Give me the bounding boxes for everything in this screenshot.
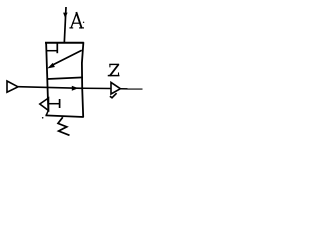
label A — [70, 13, 83, 28]
valve body top edge — [45, 42, 84, 44]
blocked port bar (top cell) — [56, 43, 58, 53]
pilot line A (vertical signal line into valve top) — [64, 7, 66, 43]
exhaust link line — [49, 103, 60, 105]
valve position divider — [48, 77, 83, 79]
exhaust port bar — [59, 99, 61, 108]
valve body right edge — [82, 42, 84, 117]
valve body left edge — [46, 42, 48, 111]
output line from valve to Z triangle — [83, 87, 111, 89]
speck below bottom-left corner — [42, 117, 44, 119]
bottom-left corner connector — [46, 110, 48, 115]
flow arrowhead (bottom cell, pointing right) — [72, 86, 79, 91]
diagonal arrowhead (pointing lower-left) — [47, 63, 55, 69]
label Z — [109, 64, 119, 75]
input flow line — [18, 87, 82, 89]
ink smudge below Z triangle — [110, 93, 117, 98]
valve body bottom edge — [45, 115, 83, 117]
speck right of A — [83, 22, 84, 23]
spring (return spring zigzag) — [58, 117, 70, 135]
arrowhead on pilot line (pointing down) — [63, 13, 68, 19]
output flow symbol (open triangle, right) — [111, 82, 120, 94]
output line after triangle — [120, 88, 142, 90]
flow path diagonal (top cell) — [53, 50, 82, 65]
blocked port link line (top cell) — [47, 50, 58, 52]
input flow symbol (open triangle, left) — [7, 81, 18, 92]
exhaust triangle (pointing left) — [40, 98, 49, 111]
